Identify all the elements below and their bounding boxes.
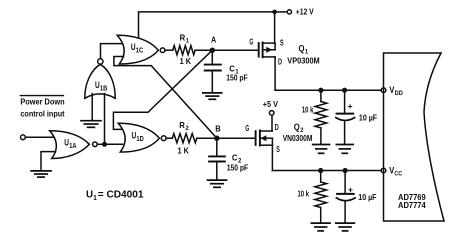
ground C1	[203, 93, 222, 99]
wire R2 to node B	[197, 137, 214, 139]
svg-text:1B: 1B	[100, 84, 107, 93]
svg-text:U: U	[86, 190, 93, 201]
ground U1A input	[31, 171, 51, 177]
svg-text:+12 V: +12 V	[296, 8, 314, 17]
svg-text:Q: Q	[299, 44, 305, 54]
wire U1B output to U1C input	[101, 44, 122, 59]
terminal VCC	[381, 166, 402, 178]
wire VDD rail	[275, 89, 381, 91]
node A	[210, 36, 217, 53]
svg-text:150 pF: 150 pF	[226, 74, 248, 83]
ground C2	[208, 180, 227, 187]
svg-text:150 pF: 150 pF	[227, 164, 249, 173]
resistor R1 1K	[173, 34, 195, 66]
svg-text:1A: 1A	[69, 141, 76, 150]
NOR gate U1C	[117, 35, 165, 64]
svg-text:1: 1	[93, 193, 97, 202]
transistor Q1 VP0300M	[249, 37, 319, 67]
NOR gate U1B	[85, 59, 115, 99]
svg-text:= CD4001: = CD4001	[98, 190, 144, 201]
svg-text:DD: DD	[395, 90, 404, 97]
svg-text:AD7774: AD7774	[398, 201, 426, 210]
wire U1D output to R2	[166, 137, 172, 139]
svg-text:10 µF: 10 µF	[359, 113, 377, 122]
wire cross-coupling node A to U1D input	[113, 50, 212, 129]
resistor 10k lower	[298, 171, 327, 223]
svg-text:1 K: 1 K	[180, 57, 192, 66]
terminal VDD	[381, 85, 403, 97]
wire node B to Q2 gate	[217, 137, 255, 139]
wire +5V to Q2 drain	[271, 115, 273, 131]
svg-text:Power Down: Power Down	[20, 97, 64, 106]
NOR gate U1A	[50, 131, 97, 159]
svg-text:+: +	[348, 101, 353, 111]
label Power Down control input	[20, 96, 64, 119]
svg-text:Q: Q	[294, 122, 300, 132]
ground 10uF upper	[336, 145, 353, 154]
ground 10k lower	[311, 223, 330, 231]
wire Q1 drain to VDD rail	[274, 57, 276, 90]
junction dot VDD 10k	[318, 88, 323, 93]
wire node A to C1	[211, 50, 213, 64]
label U1 = CD4001	[86, 190, 144, 202]
wire U1C output to R1	[165, 49, 173, 51]
terminal +12V	[287, 8, 314, 17]
wire U1A lower input to ground	[41, 152, 56, 171]
svg-text:B: B	[215, 124, 220, 133]
resistor R2 1K	[172, 121, 197, 155]
junction dot VCC 10uF	[343, 168, 348, 173]
wire node A to Q1 gate	[212, 49, 258, 51]
svg-text:10 k: 10 k	[302, 105, 314, 114]
junction dot +12V rail to Q1 source	[272, 10, 287, 15]
wire R1 to node A	[195, 49, 210, 51]
svg-text:A: A	[211, 36, 216, 45]
transistor Q2 VN0300M	[245, 122, 312, 154]
wire U1B right input down to junction	[104, 94, 106, 145]
wire U1A output to junction	[97, 143, 104, 145]
svg-text:G: G	[249, 37, 253, 47]
wire junction to U1D lower input	[105, 143, 123, 145]
svg-text:+5 V: +5 V	[263, 100, 279, 109]
NOR gate U1D	[118, 123, 166, 152]
node B	[214, 124, 221, 141]
ground 10k upper	[313, 145, 330, 154]
terminal power-down input	[21, 135, 26, 140]
capacitor C1 150 pF	[205, 65, 248, 93]
svg-text:1: 1	[186, 38, 190, 45]
capacitor 10uF lower	[336, 171, 376, 223]
IC block AD7769 AD7774	[384, 53, 445, 221]
svg-text:control input: control input	[20, 109, 64, 118]
svg-text:S: S	[280, 37, 284, 47]
svg-text:10 µF: 10 µF	[358, 193, 376, 202]
ground 10uF lower	[336, 223, 355, 231]
ground U1B input	[81, 121, 101, 128]
junction dot VCC 10k	[318, 168, 323, 173]
capacitor C2 150 pF	[209, 154, 248, 180]
svg-text:VP0300M: VP0300M	[287, 57, 320, 66]
svg-text:C: C	[229, 65, 235, 74]
svg-text:1: 1	[305, 48, 309, 55]
wire +12V to Q1 source	[274, 12, 276, 43]
junction dot U1A output to U1B and U1D inputs	[102, 142, 107, 147]
svg-text:CC: CC	[394, 171, 402, 178]
svg-text:R: R	[180, 34, 186, 43]
svg-text:1C: 1C	[136, 46, 143, 55]
svg-text:1D: 1D	[136, 134, 143, 143]
svg-text:D: D	[278, 57, 282, 67]
svg-text:VN0300M: VN0300M	[283, 134, 313, 143]
svg-text:10 k: 10 k	[298, 190, 310, 199]
resistor 10k upper	[302, 90, 327, 144]
junction dot VDD 10uF	[342, 88, 347, 93]
svg-text:D: D	[275, 122, 279, 132]
wire U1B left input to ground	[91, 94, 93, 121]
svg-text:2: 2	[186, 125, 190, 132]
wire Q2 source to VCC rail	[271, 145, 273, 170]
terminal +5V	[263, 100, 279, 115]
svg-text:S: S	[276, 144, 280, 154]
svg-text:1 K: 1 K	[178, 146, 190, 155]
svg-text:G: G	[245, 123, 249, 133]
svg-text:C: C	[232, 154, 238, 163]
wire node B to C2	[216, 138, 218, 156]
capacitor 10uF upper	[336, 90, 377, 144]
wire top +12V rail	[139, 12, 275, 37]
wire input terminal to U1A	[25, 136, 56, 138]
svg-text:R: R	[179, 121, 185, 130]
wire U1C lower input wrap from node B diagonal	[114, 57, 217, 139]
wire VCC rail	[272, 170, 381, 172]
